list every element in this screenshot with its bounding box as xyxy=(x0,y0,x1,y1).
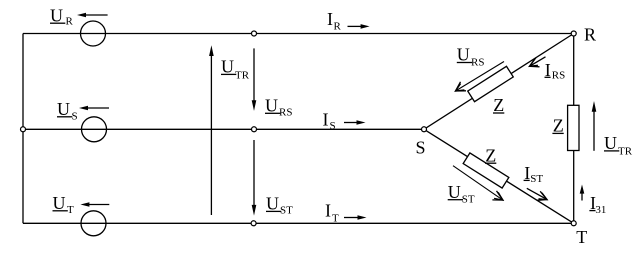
svg-text:U: U xyxy=(57,99,70,119)
node S xyxy=(422,127,427,132)
label U_RS middle xyxy=(265,96,292,119)
svg-text:ST: ST xyxy=(462,193,475,205)
wire branch S-T diagonal xyxy=(424,129,574,223)
label I_RS xyxy=(545,60,566,82)
label U_TR right xyxy=(604,133,633,158)
arrow U_ST vertical xyxy=(252,140,257,216)
wire branch R-S diagonal xyxy=(424,34,574,130)
svg-text:U: U xyxy=(50,6,63,26)
arrow I_T xyxy=(344,215,367,220)
arrow U_RS vertical xyxy=(252,48,257,111)
svg-text:T: T xyxy=(67,204,74,216)
svg-text:U: U xyxy=(457,45,470,65)
svg-text:TR: TR xyxy=(618,146,633,158)
arrow I_S xyxy=(344,120,366,125)
source U_S xyxy=(82,117,107,142)
svg-text:RS: RS xyxy=(279,107,292,119)
svg-text:R: R xyxy=(334,21,342,33)
arrow U_TR long vertical xyxy=(209,45,214,215)
svg-text:S: S xyxy=(330,120,336,132)
svg-text:U: U xyxy=(448,182,461,202)
svg-text:ST: ST xyxy=(530,173,543,185)
node R xyxy=(571,31,576,36)
svg-text:31: 31 xyxy=(595,204,606,216)
svg-text:U: U xyxy=(221,57,234,77)
impedance Z (S-T branch) xyxy=(463,153,509,188)
arrow I_R xyxy=(348,24,370,29)
svg-text:S: S xyxy=(416,138,426,158)
svg-text:I: I xyxy=(323,109,329,129)
impedance Z (T-R branch) xyxy=(568,105,579,150)
svg-text:U: U xyxy=(53,193,66,213)
label I_ST xyxy=(524,163,544,185)
svg-text:RS: RS xyxy=(471,57,484,69)
label I_T xyxy=(325,201,339,225)
svg-text:Z: Z xyxy=(493,95,504,115)
arrow U_ST diagonal xyxy=(453,166,503,200)
svg-text:U: U xyxy=(266,194,279,214)
svg-text:Z: Z xyxy=(553,116,564,136)
node top junction xyxy=(252,31,257,36)
label U_ST diagonal xyxy=(448,182,475,206)
node bottom junction xyxy=(251,221,256,226)
label U_R xyxy=(50,6,74,28)
source U_R xyxy=(81,21,106,46)
node left terminal xyxy=(21,127,26,132)
svg-text:T: T xyxy=(576,227,587,247)
label U_ST middle xyxy=(266,194,293,217)
label I_31 xyxy=(589,193,606,216)
label Z of R-S branch xyxy=(493,95,504,115)
label Z of S-T branch xyxy=(485,145,496,165)
wire left vertical bus xyxy=(22,34,24,224)
svg-text:S: S xyxy=(72,111,78,123)
svg-text:T: T xyxy=(332,213,339,225)
source U_T xyxy=(81,211,106,236)
svg-text:U: U xyxy=(265,96,278,116)
arrow U_RS diagonal xyxy=(456,62,505,92)
svg-text:ST: ST xyxy=(280,205,293,217)
label U_TR left xyxy=(221,57,250,82)
wire bottom phase T xyxy=(23,222,574,224)
label U_RS diagonal xyxy=(457,45,485,69)
svg-text:R: R xyxy=(66,16,74,28)
svg-text:I: I xyxy=(327,9,333,29)
node middle junction xyxy=(252,127,257,132)
svg-text:RS: RS xyxy=(552,70,565,82)
label Z of T-R branch xyxy=(552,116,563,136)
arrow U_T xyxy=(80,202,109,207)
wire middle phase S xyxy=(23,128,424,130)
arrow U_TR right vertical xyxy=(592,101,597,151)
impedance Z (R-S branch) xyxy=(468,66,514,101)
label I_R xyxy=(327,9,342,32)
svg-text:I: I xyxy=(325,201,331,221)
svg-text:R: R xyxy=(584,25,596,45)
arrow U_R xyxy=(77,13,108,18)
label U_S xyxy=(57,99,78,123)
wire branch R-T vertical xyxy=(573,34,575,224)
label U_T xyxy=(53,193,75,216)
svg-text:TR: TR xyxy=(235,70,250,82)
svg-text:U: U xyxy=(604,133,617,153)
wire top phase R xyxy=(23,33,574,35)
arrow I_ST xyxy=(527,188,547,200)
arrow I_31 xyxy=(580,185,585,201)
svg-text:Z: Z xyxy=(485,145,496,165)
arrow U_S xyxy=(79,106,109,111)
node T xyxy=(571,221,576,226)
arrow I_RS xyxy=(530,57,546,67)
label I_S xyxy=(323,109,336,132)
